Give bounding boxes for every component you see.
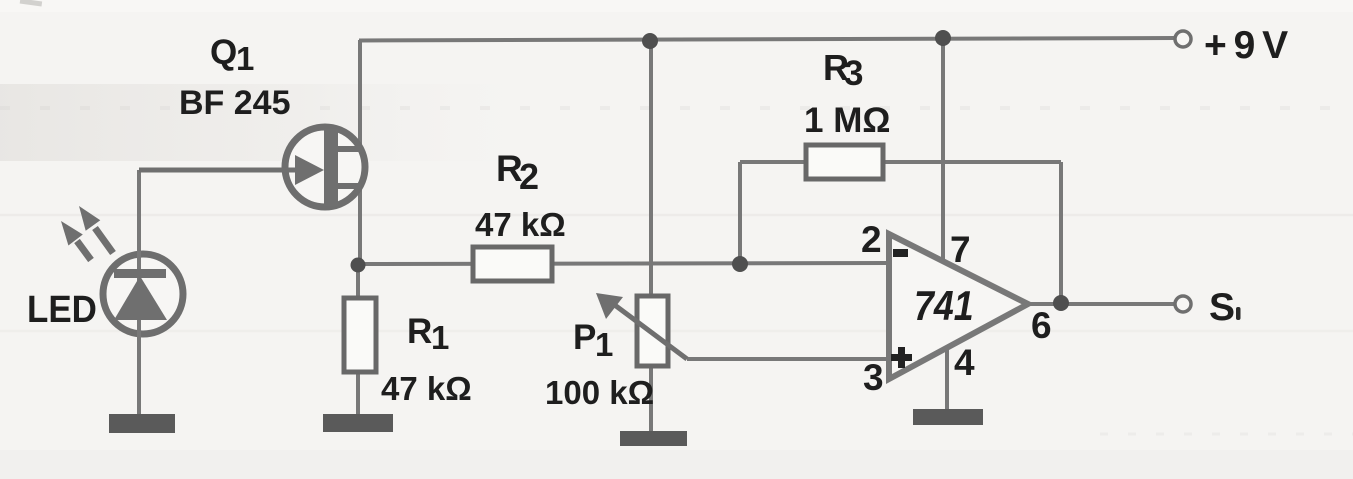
svg-text:LED: LED [27,288,97,331]
svg-text:1: 1 [431,319,449,356]
svg-text:R: R [407,312,432,351]
svg-text:6: 6 [1031,305,1052,346]
svg-text:2: 2 [861,219,882,260]
svg-text:1 MΩ: 1 MΩ [804,101,890,140]
svg-text:BF 245: BF 245 [179,84,291,122]
svg-text:4: 4 [954,342,975,383]
svg-text:7: 7 [950,229,971,270]
svg-text:3: 3 [844,54,863,93]
svg-text:100 kΩ: 100 kΩ [545,374,654,411]
svg-text:47 kΩ: 47 kΩ [475,206,566,243]
svg-text:Q: Q [210,33,237,72]
svg-text:47 kΩ: 47 kΩ [381,370,472,407]
svg-text:3: 3 [863,357,884,398]
svg-text:741: 741 [914,283,974,329]
svg-text:1: 1 [236,40,254,77]
svg-text:S: S [1209,286,1235,329]
svg-text:P: P [573,318,596,357]
svg-text:+ 9 V: + 9 V [1204,24,1288,67]
svg-text:1: 1 [595,326,613,363]
svg-text:2: 2 [519,156,539,197]
